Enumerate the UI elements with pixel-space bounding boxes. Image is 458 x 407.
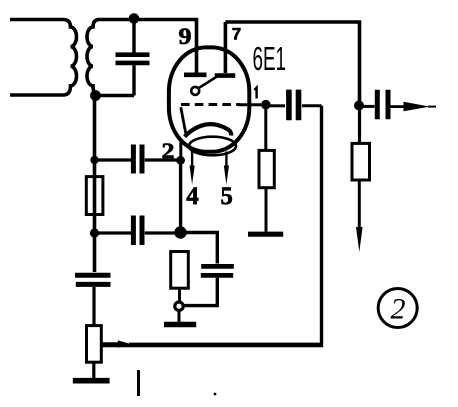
resistor R4 (pin 1 load) — [259, 150, 274, 187]
svg-text:6Е1: 6Е1 — [253, 40, 287, 77]
resistor R2 (below node B) — [171, 252, 189, 302]
node: secondary top junction — [129, 13, 140, 24]
svg-text:5: 5 — [221, 181, 233, 210]
node B (big junction) — [174, 226, 186, 238]
transformer T1 secondary winding — [87, 20, 134, 96]
node: tube pin 2 junction — [176, 156, 185, 165]
svg-text:9: 9 — [179, 24, 192, 50]
wire top rail pin7 to right rail — [225, 22, 359, 104]
svg-text:2: 2 — [391, 293, 406, 326]
wire pin2 node down to node B — [179, 160, 182, 232]
target screen arc — [185, 124, 232, 136]
node: left rail / C3 row — [90, 228, 99, 237]
ground (bottom left) — [73, 378, 110, 384]
capacitor C1 across secondary — [116, 20, 150, 96]
node: right rail junction — [354, 101, 364, 111]
figure number circled 2 — [378, 289, 417, 328]
capacitor C2 coupling — [95, 145, 181, 174]
big capacitor C5 (left rail) — [75, 275, 111, 284]
tube pin 5 lead with arrow — [224, 152, 229, 185]
capacitor C7 (output) — [359, 90, 388, 120]
wire right branch down and across bottom — [101, 106, 322, 346]
wire left rail down from transformer — [93, 96, 97, 273]
output arrow — [391, 102, 437, 111]
node A (left rail / C2 row) — [90, 156, 98, 164]
wire C4 bottom to terminal circle — [184, 278, 217, 306]
tube pin 4 lead with arrow — [190, 151, 195, 185]
svg-text:2: 2 — [162, 138, 175, 163]
svg-text:4: 4 — [186, 181, 199, 210]
grid circle electrode — [191, 87, 199, 95]
wire C5 to R3 — [92, 287, 95, 326]
cathode ellipse — [189, 137, 236, 156]
wire R4 to ground — [265, 188, 268, 232]
wire tap line with arrow — [101, 340, 322, 347]
stray dot — [214, 393, 217, 396]
wire grid line solid to node — [238, 103, 261, 106]
caption tick mark — [137, 370, 140, 396]
capacitor C3 coupling — [95, 216, 181, 246]
resistor R5 (right rail) — [352, 143, 370, 180]
anode plate pin 7 — [215, 73, 236, 78]
wire node B to C4 — [181, 233, 218, 264]
wire R5 down with arrow — [356, 180, 363, 252]
terminal circle node — [175, 302, 183, 310]
anode plate pin 9 — [184, 73, 207, 78]
wire R3 bottom to ground — [92, 362, 95, 378]
node: pin 1 junction — [261, 100, 271, 110]
tube 6E1 envelope U1 — [169, 47, 249, 151]
ground (below terminal circle) — [164, 311, 196, 325]
pin label 1 — [254, 88, 256, 99]
resistor R3 (bottom left, tapped) — [87, 326, 102, 363]
wire top rail to pin 9 — [134, 20, 197, 73]
wire right rail to R5 — [358, 106, 361, 144]
capacitor C6 (pin 1 output) — [270, 90, 322, 121]
capacitor C4 — [201, 266, 234, 275]
wire pin 7 from top rail — [224, 22, 228, 73]
node: secondary bottom junction — [90, 90, 101, 101]
svg-text:7: 7 — [232, 25, 242, 44]
wire tube pin 2 stub — [179, 141, 182, 160]
slant electrode line — [181, 107, 186, 133]
diagonal from circle to pin7 plate — [199, 77, 217, 88]
wire pin1 node to R4 — [264, 105, 267, 151]
ground (pin 1) — [248, 232, 283, 237]
resistor R1 (left rail) — [86, 177, 103, 215]
transformer T1 primary winding — [10, 20, 77, 96]
dashed grid line (pin 1) — [181, 103, 240, 106]
